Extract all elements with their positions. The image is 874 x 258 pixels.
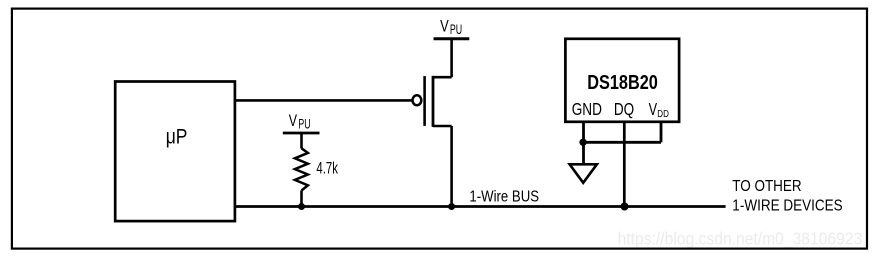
svg-text:https://blog.csdn.net/m0_38106: https://blog.csdn.net/m0_38106923 [618, 229, 863, 250]
wire: Q1 source to VPU rail [450, 39, 453, 77]
resistor R1 4.7k [295, 148, 338, 190]
node: GND / VDD junction [579, 139, 586, 146]
wire: uP output to Q1 gate [235, 99, 412, 102]
node: Q1 drain / bus junction [448, 203, 455, 210]
power VPU (resistor pull-up rail) [283, 111, 320, 133]
svg-text:V: V [440, 17, 449, 36]
svg-text:PU: PU [450, 21, 462, 37]
node: DQ / bus junction [621, 203, 629, 211]
power VPU (transistor pull-up rail) [434, 17, 470, 39]
wire: VDD pin down [660, 122, 663, 143]
transistor Q1 (P-channel MOSFET) [413, 76, 452, 127]
pin label VDD [649, 99, 670, 120]
svg-text:DS18B20: DS18B20 [587, 72, 658, 94]
svg-text:1-WIRE DEVICES: 1-WIRE DEVICES [732, 197, 842, 214]
wire: Q1 drain down to 1-Wire bus [450, 126, 453, 207]
wire: R1 to 1-Wire bus [300, 191, 303, 207]
svg-text:1-Wire BUS: 1-Wire BUS [469, 189, 539, 206]
svg-text:4.7k: 4.7k [316, 159, 338, 178]
label: TO OTHER 1-WIRE DEVICES [732, 178, 842, 214]
svg-text:TO OTHER: TO OTHER [732, 178, 801, 195]
wire: 1-Wire bus [235, 205, 726, 208]
ground [570, 164, 597, 183]
svg-text:μP: μP [166, 123, 188, 148]
svg-text:PU: PU [298, 115, 310, 131]
svg-text:GND: GND [572, 99, 602, 119]
svg-text:DD: DD [657, 108, 669, 120]
wire: GND pin down [582, 122, 585, 164]
svg-text:V: V [649, 99, 658, 119]
wire: GND-VDD link [584, 141, 662, 144]
svg-text:V: V [289, 111, 297, 130]
wire: DQ pin down to bus [623, 122, 626, 207]
wire: VPU rail to resistor R1 [300, 133, 303, 149]
IC U2 DS18B20 [565, 39, 679, 122]
node: R1 / bus junction [298, 203, 305, 210]
svg-text:DQ: DQ [614, 99, 634, 119]
microprocessor U1 (uP) [115, 82, 235, 222]
